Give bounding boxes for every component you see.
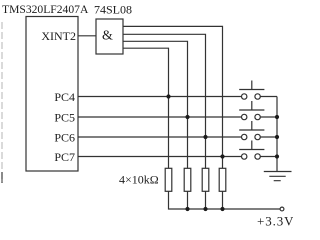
wire S2 to ground bus: [260, 116, 277, 118]
svg-text:74SL08: 74SL08: [94, 3, 132, 17]
resistor R3 10k: [202, 168, 209, 191]
wire PC5 row: [78, 116, 242, 118]
junction dot S4 ground bus: [275, 154, 279, 158]
svg-text:PC4: PC4: [54, 90, 75, 104]
svg-text:4×10kΩ: 4×10kΩ: [119, 173, 159, 187]
terminal +3.3V: [280, 207, 284, 211]
svg-text:TMS320LF2407A: TMS320LF2407A: [2, 3, 89, 16]
svg-text:PC5: PC5: [54, 111, 75, 125]
wire R2 bottom lead: [187, 191, 189, 209]
resistor R1 10k: [165, 168, 172, 191]
switch S3 actuator: [239, 121, 264, 130]
junction dot R3 supply bus: [203, 207, 207, 211]
junction dot R2 supply bus: [185, 207, 189, 211]
wire S3 to ground bus: [260, 136, 277, 138]
node PC4 junction dot: [166, 94, 170, 98]
switch S4 contacts: [242, 154, 247, 159]
wire R4 bottom lead: [222, 191, 224, 209]
wire XINT2 to AND gate output: [78, 35, 96, 37]
wire S4 to ground bus: [260, 156, 277, 158]
junction dot S2 ground bus: [275, 115, 279, 119]
junction dot R4 supply bus: [220, 207, 224, 211]
resistor R2 10k: [184, 168, 191, 191]
wire ground bus vertical: [276, 97, 278, 172]
switch S2 contacts: [242, 114, 247, 119]
wire PC7 row: [78, 156, 242, 158]
ground: [264, 172, 292, 181]
AND gate U2 74SL08: [96, 19, 123, 54]
wire PC6 row: [78, 136, 242, 138]
wire AND input 4 to node A: [123, 48, 169, 168]
wire PC4 row: [78, 96, 242, 98]
node PC5 junction dot: [185, 115, 189, 119]
switch S3 contacts: [242, 134, 247, 139]
wire S1 to ground bus: [260, 96, 277, 98]
svg-text:PC7: PC7: [54, 150, 75, 164]
resistor R4 10k: [219, 168, 226, 191]
switch S1 contacts: [242, 94, 247, 99]
wire R3 bottom lead: [205, 191, 207, 209]
scan streak artifact (left margin): [1, 22, 3, 183]
svg-text:+3.3V: +3.3V: [257, 214, 293, 229]
wire +3.3V supply bus: [169, 191, 281, 209]
svg-text:XINT2: XINT2: [41, 29, 76, 43]
node PC7 junction dot: [220, 154, 224, 158]
node PC6 junction dot: [203, 135, 207, 139]
svg-text:PC6: PC6: [54, 131, 75, 145]
switch S4 actuator: [239, 141, 264, 150]
wire AND input 1 to node D: [123, 26, 223, 168]
switch S1 actuator: [239, 81, 264, 90]
svg-text:&: &: [102, 28, 113, 43]
wire AND input 3 to node B: [123, 41, 188, 168]
wire AND input 2 to node C: [123, 34, 206, 168]
IC U1 TMS320LF2407A box: [26, 17, 78, 172]
junction dot S3 ground bus: [275, 135, 279, 139]
switch S2 actuator: [239, 101, 264, 110]
